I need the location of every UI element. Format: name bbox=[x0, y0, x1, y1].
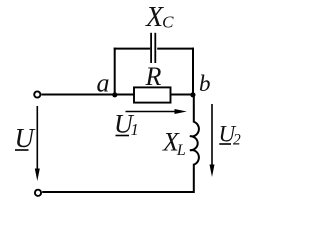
wire top branch right bbox=[157, 48, 194, 50]
inductor XL bbox=[190, 122, 199, 165]
terminal bottom-left bbox=[35, 190, 41, 196]
svg-text:2: 2 bbox=[233, 131, 241, 148]
wire coil to bottom corner bbox=[42, 164, 194, 192]
wire resistor to node b bbox=[172, 94, 195, 96]
voltage arrow U1 bbox=[126, 111, 178, 113]
wire top branch left bbox=[114, 48, 151, 50]
svg-text:R: R bbox=[145, 62, 162, 91]
svg-text:U: U bbox=[15, 123, 36, 153]
wire riser b down bbox=[192, 48, 194, 95]
voltage arrow U bbox=[36, 106, 38, 171]
svg-text:b: b bbox=[199, 71, 211, 96]
terminal top-left bbox=[34, 91, 40, 97]
wire node b down to coil bbox=[193, 95, 195, 123]
node a bbox=[112, 92, 117, 97]
svg-text:a: a bbox=[97, 69, 110, 98]
wire top-left terminal to resistor bbox=[41, 94, 134, 96]
resistor R bbox=[134, 87, 171, 102]
voltage arrow U2 bbox=[211, 104, 213, 167]
wire riser a up bbox=[114, 48, 116, 96]
capacitor XC bbox=[150, 33, 152, 63]
node b bbox=[190, 92, 195, 97]
underline of U bbox=[15, 149, 29, 151]
svg-text:1: 1 bbox=[131, 120, 139, 139]
